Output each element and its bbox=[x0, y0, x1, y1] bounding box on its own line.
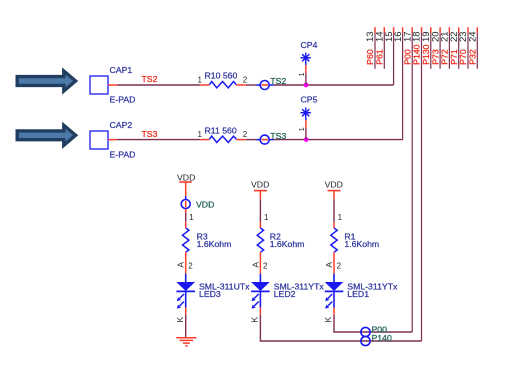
svg-text:2: 2 bbox=[188, 261, 193, 270]
connector pin 23 net P70 bbox=[458, 27, 469, 69]
resistor R11 560 bbox=[198, 125, 248, 142]
junction node TS2/CP4 bbox=[304, 83, 309, 88]
connector pin 21 net P72 bbox=[440, 27, 451, 69]
wire row2 left bbox=[117, 139, 200, 141]
svg-text:CAP2: CAP2 bbox=[110, 120, 133, 130]
power VDD col2 bbox=[251, 180, 269, 200]
connector pin 17 net P00 bbox=[402, 27, 413, 332]
port P00 bbox=[361, 325, 387, 337]
svg-text:1.6Kohm: 1.6Kohm bbox=[344, 239, 379, 249]
wire col3 upper bbox=[334, 199, 343, 228]
svg-text:VDD: VDD bbox=[196, 199, 214, 209]
svg-text:A: A bbox=[324, 262, 334, 268]
svg-text:24: 24 bbox=[468, 31, 479, 42]
svg-text:VDD: VDD bbox=[177, 172, 195, 182]
svg-text:2: 2 bbox=[243, 76, 248, 85]
svg-text:CP4: CP4 bbox=[301, 40, 318, 50]
wire col3 A-2 bbox=[324, 252, 342, 273]
svg-text:K: K bbox=[323, 317, 333, 323]
svg-text:LED2: LED2 bbox=[274, 289, 296, 299]
resistor R3 1.6Kohm bbox=[183, 228, 232, 252]
svg-text:R10 560: R10 560 bbox=[205, 71, 238, 81]
wire row1 left bbox=[117, 84, 200, 86]
svg-text:2: 2 bbox=[243, 130, 248, 139]
resistor R10 560 bbox=[198, 71, 248, 88]
connector pin 14 net P61 bbox=[375, 27, 386, 69]
svg-text:P140: P140 bbox=[372, 333, 392, 343]
svg-text:TS3: TS3 bbox=[142, 129, 158, 139]
svg-text:2: 2 bbox=[337, 261, 342, 270]
capacitor CP4 bbox=[297, 40, 318, 85]
wire col1 A-2 bbox=[176, 252, 194, 273]
svg-text:P32: P32 bbox=[468, 49, 478, 65]
port VDD testpoint bbox=[181, 196, 214, 213]
wire col2 A-2 bbox=[250, 252, 268, 273]
svg-text:TS2: TS2 bbox=[142, 74, 158, 84]
wire col1 upper bbox=[186, 209, 195, 228]
svg-text:LED3: LED3 bbox=[199, 289, 221, 299]
svg-text:1: 1 bbox=[297, 127, 306, 131]
svg-text:K: K bbox=[249, 317, 259, 323]
svg-text:VDD: VDD bbox=[251, 180, 269, 190]
svg-text:1.6Kohm: 1.6Kohm bbox=[270, 239, 305, 249]
testpoint port TS2 bbox=[256, 76, 286, 90]
svg-text:E-PAD: E-PAD bbox=[110, 95, 136, 105]
connector pin 18 net P140 bbox=[412, 27, 423, 341]
svg-text:P61: P61 bbox=[375, 49, 385, 65]
wire row1 right bbox=[274, 84, 394, 86]
power VDD col3 bbox=[325, 180, 343, 200]
svg-text:1: 1 bbox=[198, 76, 203, 85]
svg-text:1: 1 bbox=[198, 130, 203, 139]
resistor R2 1.6Kohm bbox=[257, 228, 304, 252]
connector pin 24 net P32 bbox=[468, 27, 479, 69]
svg-text:E-PAD: E-PAD bbox=[110, 150, 136, 160]
svg-text:1.6Kohm: 1.6Kohm bbox=[197, 239, 232, 249]
wire col2 K to P140 bbox=[249, 308, 421, 341]
svg-text:1: 1 bbox=[189, 213, 194, 222]
connector pin 16 bbox=[393, 27, 404, 139]
wire row2 mid bbox=[246, 139, 256, 141]
LED LED3 SML-311UTx bbox=[176, 274, 250, 309]
connector pin 13 net P60 bbox=[365, 27, 376, 69]
ground bbox=[176, 338, 196, 346]
wire row1 mid bbox=[246, 84, 256, 86]
pad CAP1 (E-PAD) bbox=[90, 65, 135, 105]
svg-text:A: A bbox=[176, 262, 186, 268]
resistor R1 1.6Kohm bbox=[331, 228, 379, 252]
svg-text:A: A bbox=[250, 262, 260, 268]
wire col2 upper bbox=[260, 199, 269, 228]
connector pin 20 net P73 bbox=[430, 27, 441, 69]
svg-text:1: 1 bbox=[297, 72, 306, 76]
wire col3 K to P00 bbox=[323, 308, 412, 332]
connector pin 19 net P130 bbox=[421, 27, 432, 69]
svg-text:2: 2 bbox=[263, 261, 268, 270]
svg-text:1: 1 bbox=[264, 213, 269, 222]
connector pin 22 net P71 bbox=[449, 27, 460, 69]
wire col1 K bbox=[175, 308, 186, 338]
svg-text:LED1: LED1 bbox=[347, 289, 369, 299]
svg-text:CAP1: CAP1 bbox=[110, 65, 133, 75]
svg-text:R11 560: R11 560 bbox=[205, 125, 237, 135]
capacitor CP5 bbox=[297, 95, 318, 140]
testpoint port TS3 bbox=[256, 131, 286, 144]
LED LED1 SML-311YTx bbox=[325, 274, 398, 309]
input arrow 2 bbox=[17, 125, 75, 145]
port P140 bbox=[361, 333, 392, 346]
svg-text:K: K bbox=[175, 317, 185, 323]
LED LED2 SML-311YTx bbox=[251, 274, 324, 309]
input arrow 1 bbox=[17, 71, 75, 91]
power VDD col1 bbox=[177, 172, 195, 199]
pad CAP2 (E-PAD) bbox=[90, 120, 135, 160]
svg-text:CP5: CP5 bbox=[301, 95, 318, 105]
connector pin 15 bbox=[384, 27, 395, 85]
svg-text:VDD: VDD bbox=[325, 180, 343, 190]
svg-text:1: 1 bbox=[338, 213, 343, 222]
junction node TS3/CP5 bbox=[304, 137, 309, 142]
wire row2 right bbox=[274, 139, 403, 141]
